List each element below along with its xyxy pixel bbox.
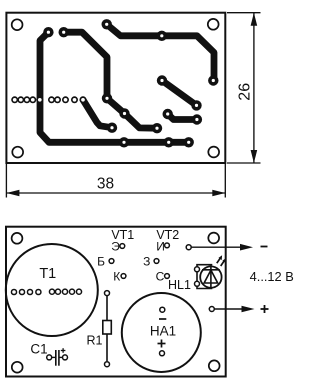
mounting hole top-right: [208, 233, 219, 244]
pad at trace C start: [102, 19, 112, 29]
transformer pin row pads (copper side, right group): [48, 96, 87, 103]
svg-text:38: 38: [97, 176, 114, 193]
svg-text:R1: R1: [87, 334, 103, 348]
svg-text:Б: Б: [97, 255, 105, 269]
LED HL1 lead bracket with pads: [195, 265, 213, 289]
pad bent trace left: [163, 109, 173, 119]
svg-text:C1: C1: [30, 342, 47, 357]
svg-text:И: И: [156, 240, 165, 254]
pad bent trace right: [192, 114, 202, 124]
svg-text:26: 26: [237, 83, 254, 101]
dimension 26 line with arrowheads: [251, 13, 258, 163]
mounting hole bottom-right: [209, 360, 220, 371]
VT1 pin emitter label and pad: [111, 240, 125, 254]
HA1 plus mark: [158, 340, 166, 348]
mounting hole bottom-left: [12, 362, 23, 373]
transformer pin row (component side, right group): [49, 289, 81, 294]
dimension 26 extension lines: [227, 13, 261, 163]
LED HL1 body: [200, 266, 221, 289]
pad on bottom bus 1: [119, 137, 129, 147]
transformer pin row pads (copper side, left group): [11, 96, 43, 103]
pad diagonal bottom: [191, 100, 201, 110]
resistor R1: [103, 291, 112, 367]
pad on top horizontal: [157, 31, 167, 41]
pad on bottom bus 2: [164, 137, 174, 147]
transformer pin row (component side, left group): [11, 289, 41, 294]
svg-text:HA1: HA1: [150, 323, 176, 338]
wire: trace from transformer pin row down right: [83, 100, 112, 128]
svg-text:HL1: HL1: [168, 278, 191, 292]
mounting hole top-left: [12, 19, 23, 30]
mounting hole bottom-right: [208, 147, 219, 158]
pad at staircase end: [152, 123, 162, 133]
VT2 pin drain label and pad: [156, 270, 170, 284]
transformer T1 outline: [6, 244, 98, 336]
C1 plus mark: [61, 348, 66, 353]
HA1 bottom pad: [160, 351, 165, 356]
board outline (copper side): [6, 13, 225, 163]
pad diagonal top: [157, 75, 167, 85]
dimension 38 extension lines: [6, 163, 225, 198]
mounting hole bottom-left: [12, 147, 23, 158]
wire: left vertical trace with bottom horizontal bus: [40, 32, 189, 142]
wire: diagonal trace upper right: [162, 81, 197, 106]
VT1 pin base label and pad: [97, 255, 114, 269]
pad at middle vertical end: [102, 93, 112, 103]
HA1 minus mark: [159, 318, 166, 320]
dimension 38 line with arrowheads: [6, 190, 225, 197]
wire: middle diagonal staircase trace: [107, 98, 157, 128]
VT2 pin source label and pad: [156, 240, 169, 254]
svg-text:З: З: [143, 255, 150, 269]
output minus wire with pad and arrow: [186, 244, 253, 251]
wire: short bent trace right: [168, 114, 197, 120]
svg-text:Э: Э: [111, 240, 120, 254]
VT2 pin gate label and pad: [143, 255, 159, 269]
pad at trace A top: [43, 27, 53, 37]
svg-text:4...12 В: 4...12 В: [250, 269, 294, 284]
wire: top horizontal trace to right vertical: [107, 24, 214, 80]
LED HL1 light rays: [217, 255, 226, 266]
mounting hole top-left: [12, 233, 23, 244]
pad at right vertical end: [208, 75, 218, 85]
output minus sign: [261, 246, 268, 248]
svg-text:С: С: [156, 270, 165, 284]
pad on bottom bus end: [184, 137, 194, 147]
VT1 pin collector label and pad: [113, 270, 126, 284]
HA1 top pad: [160, 307, 165, 312]
output plus sign: [261, 305, 269, 313]
svg-text:T1: T1: [39, 266, 56, 282]
capacitor C1: [47, 350, 68, 366]
pad pin-row branch end: [107, 123, 117, 133]
pad at trace B top: [59, 27, 69, 37]
svg-text:К: К: [113, 270, 120, 284]
pad on staircase middle: [119, 108, 129, 118]
mounting hole top-right: [208, 19, 219, 30]
wire: trace from pad to middle vertical: [64, 32, 107, 98]
board outline (component side): [6, 227, 226, 377]
output plus wire with pad and arrow: [209, 306, 254, 313]
buzzer HA1 outline: [122, 293, 201, 372]
